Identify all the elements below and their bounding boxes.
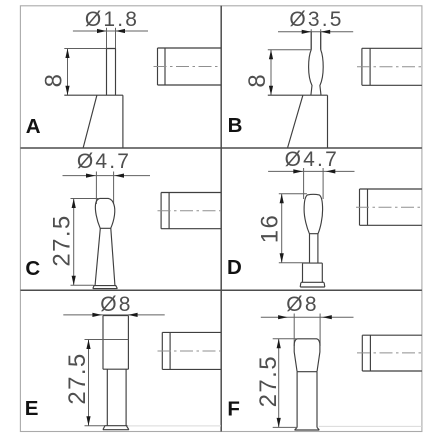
dim line Ø4.7 D	[268, 170, 354, 172]
cylinder F centerline	[357, 352, 422, 354]
arrow Ø4.7C left	[86, 174, 96, 178]
svg-text:Ø8: Ø8	[286, 293, 318, 316]
svg-text:D: D	[227, 256, 242, 279]
cylinder D centerline	[356, 206, 422, 208]
svg-text:Ø4.7: Ø4.7	[285, 148, 339, 171]
probe C flange	[93, 285, 118, 288]
arrow Ø4.7D right	[326, 169, 336, 173]
probe F barrel	[294, 339, 320, 372]
probe C egg tip	[95, 198, 114, 228]
arrow Ø8F left	[278, 315, 288, 319]
cylinder F body	[362, 335, 422, 371]
dim 8 line B	[270, 50, 272, 95]
dim line Ø8 E	[63, 314, 164, 316]
probe A base	[64, 95, 123, 148]
extension lines pin B	[311, 29, 321, 50]
dim 16 line	[281, 194, 283, 263]
arrow Ø4.7C right	[115, 174, 125, 178]
probe B base	[268, 95, 328, 148]
probe D flange	[300, 282, 325, 287]
dim 27.5 ext top F	[273, 338, 298, 340]
probe E seam + dim ext top	[85, 339, 129, 341]
arrow 8B up	[269, 50, 273, 60]
probe F shank	[297, 372, 317, 428]
arrow Ø1.8 left	[97, 29, 107, 33]
probe C cone	[95, 228, 115, 285]
probe E cylinder	[103, 316, 128, 370]
probe D egg tip	[304, 194, 323, 233]
svg-text:C: C	[25, 257, 40, 280]
arrow 27.5F down	[277, 418, 281, 428]
cylinder A centerline	[154, 66, 222, 68]
arrow Ø3.5 right	[321, 30, 331, 34]
svg-text:8: 8	[244, 73, 271, 88]
dim 27.5 line C	[73, 199, 75, 286]
extension lines barrel F	[294, 314, 320, 347]
svg-text:16: 16	[257, 214, 284, 244]
dim 8 line	[67, 49, 69, 96]
arrow Ø4.7D left	[293, 169, 303, 173]
arrow 27.5F up	[277, 339, 281, 349]
probe B pin	[311, 32, 321, 50]
dim 16 extension bottom	[279, 262, 310, 264]
cylinder D body	[360, 189, 422, 225]
cylinder B body	[362, 48, 422, 85]
arrow Ø8E left	[92, 313, 102, 317]
dim 27.5 extension top C	[71, 198, 100, 200]
svg-text:Ø1.8: Ø1.8	[85, 8, 139, 31]
svg-text:B: B	[228, 114, 243, 137]
cylinder B centerline	[357, 66, 422, 68]
probe D ferrule	[303, 263, 323, 282]
probe E flange	[103, 426, 129, 430]
arrow 27.5C up	[72, 199, 76, 209]
cylinder C centerline	[158, 210, 222, 212]
probe A pin	[107, 49, 116, 96]
extension lines pin A	[107, 28, 116, 49]
dim 27.5 line F	[278, 339, 280, 428]
svg-text:27.5: 27.5	[49, 214, 76, 266]
grid horizontal separator 1	[20, 147, 422, 149]
arrow Ø8F right	[322, 315, 332, 319]
dim 8 extension top	[64, 48, 106, 50]
svg-text:27.5: 27.5	[255, 355, 282, 407]
dim 27.5 extension bottom C	[71, 284, 94, 286]
dim 8 extension top B	[268, 49, 311, 51]
cylinder E centerline	[158, 350, 222, 352]
svg-text:A: A	[26, 115, 41, 138]
baseline ghost F	[319, 425, 422, 427]
dim line Ø1.8	[73, 30, 148, 32]
svg-text:F: F	[227, 398, 240, 421]
arrow 8 up	[65, 49, 69, 59]
arrow 27.5C down	[72, 276, 76, 286]
probe D stem	[310, 234, 318, 263]
arrow 16 up	[280, 194, 284, 204]
svg-text:27.5: 27.5	[64, 352, 91, 404]
cylinder C body	[161, 193, 221, 229]
svg-text:Ø3.5: Ø3.5	[289, 8, 343, 31]
extension lines egg D	[304, 168, 324, 199]
dim 27.5 line E	[88, 340, 90, 426]
dim line Ø4.7 C	[63, 175, 151, 177]
svg-text:Ø8: Ø8	[100, 293, 132, 316]
arrow Ø1.8 right	[116, 29, 126, 33]
arrow 8 down	[65, 86, 69, 96]
probe F flange	[295, 427, 320, 430]
extension lines egg C	[96, 172, 113, 205]
cylinder A body	[158, 48, 222, 85]
svg-text:E: E	[25, 397, 39, 420]
dim 27.5 ext bottom F	[273, 426, 297, 428]
dim 16 extension top	[279, 193, 307, 195]
arrow 27.5E down	[86, 416, 90, 426]
svg-text:Ø4.7: Ø4.7	[77, 150, 131, 173]
arrow Ø3.5 left	[302, 30, 312, 34]
arrow 16 down	[280, 253, 284, 262]
grid horizontal separator 2	[20, 289, 422, 291]
dim line Ø8 F	[261, 316, 354, 318]
dim line Ø3.5	[278, 31, 353, 33]
svg-text:8: 8	[41, 73, 68, 88]
probe B spindle	[309, 50, 324, 95]
dim 27.5 ext bottom E	[85, 425, 105, 427]
grid vertical separator	[220, 6, 222, 432]
baseline ghost E	[128, 425, 221, 427]
arrow 8B down	[269, 86, 273, 96]
arrow 27.5E up	[86, 340, 90, 350]
probe E shank	[107, 369, 126, 426]
cylinder E body	[162, 332, 221, 369]
arrow Ø8E right	[128, 313, 138, 317]
